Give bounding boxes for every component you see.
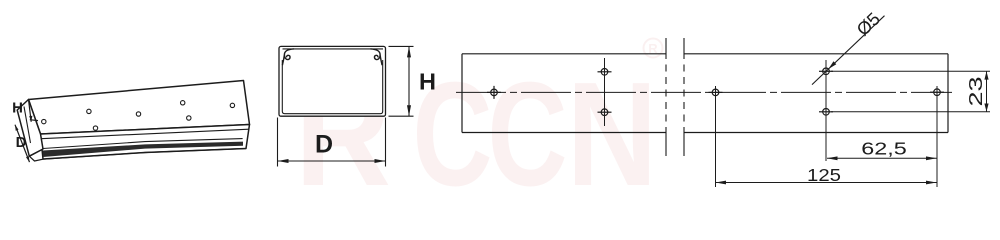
hole D2 (bottom of right pair) [819, 109, 833, 116]
23 extension line bottom [831, 111, 990, 113]
plan outline top edge [462, 53, 948, 55]
profile outer wall [279, 46, 386, 116]
extension line from center hole (125) [715, 86, 717, 187]
D dimension line [278, 160, 386, 162]
top face hole 2 [87, 109, 91, 113]
D arrowhead left [278, 159, 289, 163]
cover seam line on front face [41, 129, 249, 139]
cover lip line on front face [43, 139, 243, 149]
H extension line top [389, 45, 414, 47]
diameter leader line [812, 16, 885, 85]
125 arrowhead left [716, 181, 727, 185]
hole E (right, on centerline) [930, 89, 944, 96]
svg-text:D: D [16, 134, 27, 151]
hole B1 (top of left pair) [598, 69, 612, 76]
H arrowhead [29, 116, 32, 122]
D extension line right [385, 118, 387, 167]
plan outline right edge [947, 54, 949, 133]
D extension line left [277, 118, 279, 167]
end face inner wall line [24, 107, 31, 144]
profile inner wall U [282, 60, 382, 114]
H extension line bottom [389, 115, 414, 117]
plan outline left edge [461, 54, 463, 133]
duct front face [41, 125, 250, 160]
D arrowhead top [15, 125, 19, 131]
D arrowhead bottom [26, 156, 30, 162]
break line left [665, 38, 667, 156]
plan outline bottom edge [462, 132, 948, 134]
top face hole 6 [187, 116, 191, 120]
break line right [683, 38, 685, 156]
top face hole 3 [93, 126, 97, 130]
H arrowhead top [407, 46, 411, 57]
top face hole 1 [42, 119, 46, 123]
svg-text:C: C [487, 51, 567, 209]
hole A (left, on centerline) [487, 86, 501, 99]
svg-text:H: H [419, 69, 436, 95]
svg-text:N: N [567, 52, 658, 209]
left cover hook curl [282, 49, 294, 65]
svg-text:125: 125 [807, 166, 841, 186]
H dimension line [408, 46, 410, 116]
23 arrowhead top [984, 71, 988, 79]
bottom silhouette edge [29, 149, 246, 162]
top face hole 7 [230, 103, 234, 107]
centerline [456, 91, 952, 93]
23 extension line top [831, 70, 990, 72]
62,5 dimension line [827, 157, 937, 159]
extension line from right hole [936, 86, 938, 187]
H arrowhead bottom [407, 105, 411, 116]
profile inner top line [283, 48, 384, 50]
H extension tick [30, 119, 38, 122]
125 arrowhead right [926, 181, 937, 185]
hole column line right pair / 62.5 extension [825, 60, 827, 161]
hole B2 (bottom of left pair) [598, 109, 612, 116]
125 dimension line [716, 182, 937, 184]
D arrowhead right [375, 159, 386, 163]
hole D1 (top of right pair) [819, 68, 833, 75]
dark cover strip along bottom [43, 142, 243, 157]
cover end tail edge [29, 149, 43, 156]
svg-text:D: D [315, 131, 333, 159]
watermark RCCN logo [295, 51, 658, 217]
top face hole 4 [136, 112, 140, 116]
23 dimension line [986, 71, 988, 112]
right cover hook curl [371, 49, 383, 65]
62,5 arrowhead right [926, 156, 937, 160]
62,5 arrowhead left [827, 156, 838, 160]
hole C (center, on centerline) [709, 89, 723, 96]
svg-text:23: 23 [966, 76, 986, 106]
svg-text:H: H [12, 100, 23, 117]
svg-text:62,5: 62,5 [861, 139, 907, 159]
watermark registered mark [644, 39, 663, 58]
hole column line left pair [604, 58, 606, 126]
duct end face [17, 100, 43, 157]
top face hole 5 [181, 101, 185, 105]
H dimension line on end [29, 100, 32, 122]
duct top face [29, 81, 250, 135]
D dimension line on end [15, 125, 30, 162]
23 arrowhead bottom [984, 104, 988, 112]
diameter leader arrowhead [828, 61, 836, 69]
